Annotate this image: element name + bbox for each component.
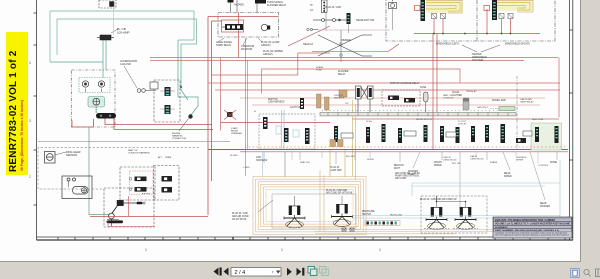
label flasher <box>234 1 287 7</box>
terminal X symbols below fan box <box>342 228 354 232</box>
connector bar 6c <box>471 126 475 142</box>
big dashed enclosure lower-left <box>38 148 199 190</box>
blower fan solid box <box>272 194 356 228</box>
label engine harness <box>172 133 186 140</box>
ac compressor dashed box <box>421 196 487 233</box>
X-terminal boxes left module <box>432 14 446 19</box>
connector bar 6 <box>440 126 444 142</box>
labels windshield <box>436 43 530 63</box>
relay red outline box <box>222 20 244 32</box>
statusbar magnifier icon <box>584 269 591 276</box>
relay coil symbol <box>222 24 243 30</box>
capacitor gray cylinder <box>463 98 469 110</box>
label condenser plug <box>232 212 249 221</box>
pointer line to blower <box>258 200 273 212</box>
wire light blue vertical pair <box>282 110 285 148</box>
X-terminal boxes right module <box>499 14 513 19</box>
toolbar copy-page icon 2 <box>320 267 329 276</box>
fuse cylinder <box>424 92 429 112</box>
labels above component row <box>338 70 506 102</box>
dimmer switch circle <box>313 19 347 22</box>
toolbar page combo box <box>231 268 281 277</box>
label part of console harness <box>128 149 171 159</box>
olive risers to cab nest <box>353 100 356 180</box>
wire blue riser to nest <box>262 152 264 177</box>
turn signal flasher block <box>228 0 267 4</box>
wire tan bundle bottom <box>315 170 520 234</box>
wire red long bus double <box>208 150 568 152</box>
toolbar copy-page icon 1 <box>308 267 317 276</box>
light switch bars in cab box <box>284 128 289 142</box>
labels under relay box <box>216 41 283 56</box>
connector pair mid-left <box>124 66 156 92</box>
headlight X wires <box>318 35 372 56</box>
wire red right riser <box>352 58 559 120</box>
battery box dashed <box>72 70 116 127</box>
wire red staircase to right <box>150 53 560 131</box>
cab inner yellow loop <box>266 190 353 222</box>
label pointer lines under relay box <box>218 38 262 45</box>
wire red battery to system <box>72 119 330 130</box>
connector bar 9 in green panel <box>555 126 559 143</box>
wire gray key line <box>38 141 230 143</box>
label headlight <box>303 19 375 46</box>
terminal strip bus bar <box>320 113 516 116</box>
label key switch <box>66 150 81 157</box>
cab harness nested loops <box>253 177 366 235</box>
condenser fan right2 <box>453 202 478 230</box>
component boxes small mid-left <box>150 82 158 89</box>
wire pink lower crossbars <box>240 98 545 105</box>
terminal row between fans <box>365 221 400 226</box>
label part of cab harness <box>268 98 302 109</box>
cab harness dashed box <box>259 114 315 149</box>
lower fuse box dashed <box>154 166 179 201</box>
label smudges row below bus <box>230 155 549 169</box>
relay pair dashed box above bus <box>382 90 420 106</box>
wire teal alternator drops <box>50 40 110 215</box>
red terminal box left module <box>415 6 421 11</box>
label B+ circuit breaker <box>117 27 130 34</box>
toolbar last-page button <box>297 268 305 276</box>
label air cond attach <box>326 189 352 195</box>
wire red ignition feed <box>90 216 208 218</box>
connector bar 2 <box>334 126 338 142</box>
tan components above bus mid <box>330 140 343 147</box>
wire red steering drops <box>414 9 540 150</box>
wire tan harness outer <box>426 1 533 14</box>
labels beside connector strip <box>310 4 313 12</box>
wire orange risers right of cab <box>330 150 345 177</box>
horn button <box>389 0 397 9</box>
connector bar 7 <box>485 125 489 142</box>
maroon diagonal wire <box>288 26 399 52</box>
condenser fan left <box>332 196 353 226</box>
component start switch box <box>62 176 92 199</box>
fan interconnect wires <box>436 196 467 202</box>
relay module dash-dot box <box>218 13 279 38</box>
statusbar page-layout icon active <box>571 269 580 278</box>
relay contact circle <box>261 24 270 30</box>
extra drop wires below bus <box>292 152 538 163</box>
wire pale drop from fuse box <box>113 8 115 35</box>
label alternator <box>120 59 137 66</box>
battery disconnect switch circles <box>82 81 104 92</box>
component relay block dashed <box>120 167 155 200</box>
wire number tick row above bus <box>245 146 565 148</box>
wire red ignition drop <box>108 221 155 227</box>
wire light blue bundle <box>352 160 560 218</box>
toolbar next-page button <box>287 268 292 276</box>
windshield module dash-dot box <box>386 0 555 41</box>
title block text <box>495 219 570 237</box>
small boxes along row <box>341 131 532 138</box>
connector bar 3 <box>382 124 386 142</box>
fuse panel box right of battery <box>154 80 180 122</box>
resistor pair above bus <box>356 86 374 112</box>
wire headlight sw drop <box>348 24 350 33</box>
wire red ignition internal drop <box>128 196 130 217</box>
sheet border frame left <box>34 0 37 240</box>
component box top-left fuse <box>99 0 116 8</box>
pointer V lines windshield <box>462 45 500 52</box>
wire yellow harness loops <box>426 3 530 12</box>
blue relay outline in cab box <box>276 126 299 137</box>
label air conditioner group <box>395 172 420 180</box>
label ac condenser <box>325 6 457 201</box>
wire teal main vertical pair <box>178 40 198 115</box>
labels below bus <box>256 156 557 208</box>
statusbar partial icon <box>596 269 600 277</box>
terminal strip ticks <box>328 113 508 116</box>
connector bar 4 <box>398 128 402 143</box>
key start teal box <box>88 97 105 114</box>
connector bar 5 <box>424 125 428 142</box>
wire red relay vertical <box>238 13 240 58</box>
second bar in cab box <box>305 128 310 144</box>
blower motor fan <box>284 196 305 228</box>
sheet border frame bottom <box>37 237 574 240</box>
wire teal battery feed pair top <box>50 11 197 62</box>
svg-text:2 / 4: 2 / 4 <box>235 270 246 276</box>
tan component headlight area <box>339 90 347 97</box>
connector bar headlight <box>347 13 351 24</box>
dimmer aux circles <box>307 28 318 30</box>
title block <box>493 217 572 238</box>
sheet border frame right <box>570 0 573 240</box>
condenser fan right <box>424 196 449 229</box>
wire dark center verticals <box>246 9 393 178</box>
steering column highlight area <box>426 0 463 13</box>
sticky-note banner RENR7783-02 <box>6 32 28 175</box>
label smudges above rows <box>254 66 544 126</box>
starter motor terminals <box>96 113 116 119</box>
wire dark flasher drops <box>231 0 258 13</box>
toolbar prev-page button <box>224 268 229 276</box>
fuse feed stubs <box>160 91 175 109</box>
component ignition switch dashed box <box>104 188 154 227</box>
connector bar in green panel left <box>535 127 539 142</box>
label start relay <box>231 127 243 135</box>
headlight switch connector strip <box>322 0 328 13</box>
junction dots steering bus <box>433 33 511 35</box>
start relay terminal <box>224 110 236 120</box>
wire number tick row above terminal strip <box>322 110 514 112</box>
zone digits left margin <box>29 61 31 179</box>
label pressure switch <box>362 211 403 217</box>
connector alternator B+ <box>97 29 118 40</box>
connector J1 steering column <box>421 0 426 21</box>
connector bar 8 <box>501 124 506 143</box>
connector bar 6b <box>456 127 460 143</box>
connector above cab box <box>300 98 304 109</box>
dimmer contact column <box>340 30 343 62</box>
wire drops below bus with labels <box>264 152 557 214</box>
green panel right <box>531 123 562 150</box>
connector J2 steering column <box>492 0 497 20</box>
connector bar mid extra <box>366 127 370 143</box>
connector bar in cab box <box>263 117 268 129</box>
toolbar first-page button <box>214 268 222 276</box>
tan components left of bus <box>317 94 330 110</box>
component key switch <box>45 152 67 164</box>
zone number labels <box>145 248 381 252</box>
component row below bus: connector bars <box>0 0 1 1</box>
green resistor block <box>490 107 515 111</box>
console box divider dashed <box>516 76 518 149</box>
ignition switch symbol <box>107 201 146 227</box>
red terminal box right module <box>484 6 490 11</box>
engine harness connector blob <box>179 114 193 131</box>
relay small in green panel <box>516 138 526 143</box>
windshield module divider dash <box>476 0 478 41</box>
wire red main vertical pair center <box>208 17 278 216</box>
